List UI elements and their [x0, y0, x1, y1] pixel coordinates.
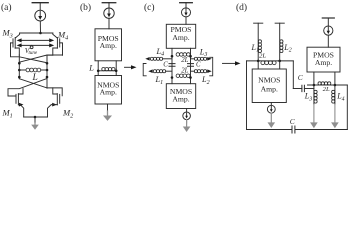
rail L1 D — [257, 23, 259, 61]
dots L B — [97, 70, 100, 73]
M3 source lead — [15, 33, 19, 38]
coupling wire lower A — [21, 44, 49, 46]
svg-text:Amp.: Amp. — [261, 85, 278, 94]
svg-text:C: C — [290, 117, 295, 126]
inductor L2 D — [280, 40, 283, 43]
riser to cap D — [292, 61, 294, 89]
svg-text:C: C — [196, 61, 201, 68]
svg-text:2L: 2L — [181, 57, 188, 64]
rail L3 D — [313, 85, 315, 105]
supply bar C — [180, 2, 193, 4]
wire ID-PMOS D — [327, 35, 329, 47]
Vtune port — [30, 46, 33, 49]
wire supply-ID — [327, 18, 329, 26]
svg-text:2L: 2L — [323, 86, 330, 93]
wire supply to source A — [39, 3, 41, 11]
svg-text:(b): (b) — [80, 2, 91, 13]
inductor 2L bottom C — [176, 74, 180, 78]
ground B — [107, 111, 109, 117]
svg-text:C: C — [163, 61, 168, 68]
NMOS amplifier B — [95, 76, 122, 105]
transistor M1 channel — [17, 94, 19, 105]
capacitor C left rail — [169, 64, 175, 67]
wire L3-gnd D — [313, 105, 315, 123]
wire cap-rail D — [304, 88, 314, 90]
current source IA — [35, 10, 46, 21]
outer wire right D — [346, 85, 348, 130]
cross line gate M1 A — [8, 79, 47, 97]
ground A — [34, 123, 36, 125]
M1 source arrow — [19, 103, 24, 107]
ground C — [186, 120, 188, 127]
tail wire A — [24, 116, 48, 118]
svg-text:Amp.: Amp. — [172, 33, 189, 42]
outer wire left D — [246, 61, 248, 130]
M3 gate lead — [11, 42, 14, 44]
M1 source lead — [18, 105, 23, 117]
inductor L3 C — [191, 58, 195, 60]
PMOS amplifier D — [307, 47, 340, 72]
row wire D left — [247, 60, 294, 62]
row wire D right — [308, 84, 348, 86]
dots row D left — [257, 60, 260, 63]
transistor M2 gate — [59, 94, 61, 103]
bracket left C — [143, 64, 146, 76]
tail stem A — [34, 117, 36, 123]
M2 source arrow — [52, 103, 57, 107]
supply bar D1 — [254, 22, 263, 24]
coupling wire upper A — [21, 39, 49, 41]
cross line gate M2 A — [19, 79, 62, 96]
arrow L4 C — [145, 57, 149, 61]
svg-text:L: L — [88, 64, 94, 73]
wire IC-PMOS — [185, 17, 187, 24]
svg-text:Amp.: Amp. — [315, 58, 332, 67]
transistor M2 channel — [56, 94, 58, 105]
M4 drain to rail — [47, 54, 53, 56]
right tank rail A — [46, 55, 48, 88]
dots top coil C — [171, 55, 174, 58]
dots bottom coil C — [171, 76, 174, 79]
inductor L A — [19, 69, 26, 71]
M1 drain lead — [18, 89, 23, 94]
wire L4-gnd D — [334, 105, 336, 123]
svg-text:2L: 2L — [259, 53, 266, 60]
inductor L1 D — [258, 40, 261, 43]
current source tail C — [183, 112, 191, 120]
inductor L4 C — [150, 57, 153, 60]
transform arrow B-C — [125, 66, 133, 68]
arrow L3 C — [206, 58, 209, 60]
svg-text:Amp.: Amp. — [100, 41, 117, 50]
inductor 2L D left — [261, 61, 265, 65]
capacitor C bottom D — [292, 126, 295, 133]
current source IC — [182, 8, 191, 17]
svg-text:Amp.: Amp. — [172, 94, 189, 103]
svg-text:C: C — [298, 73, 303, 82]
node dot A top — [39, 32, 42, 35]
arrow L2 C — [206, 70, 209, 72]
transform arrow C-D — [223, 62, 237, 64]
ground D left — [270, 113, 272, 123]
NMOS amplifier D — [252, 69, 286, 103]
inductor L2 C — [191, 70, 195, 72]
wire riser-cap D — [293, 88, 302, 90]
rails PMOS D — [314, 72, 335, 85]
ground L4 D — [331, 122, 339, 128]
ground L3 D — [310, 122, 318, 128]
NMOS amplifier C — [166, 84, 195, 109]
svg-text:(d): (d) — [236, 2, 247, 13]
cross line gate M4 A — [19, 55, 62, 62]
wire NMOS-gnd B — [107, 104, 109, 111]
wire IA to node — [39, 21, 41, 33]
rail L4 D — [334, 85, 336, 105]
inductor L3 D — [314, 90, 317, 93]
M2 drain lead — [53, 88, 57, 94]
tail dot A — [34, 116, 37, 119]
transistor M4 gate — [59, 39, 61, 47]
right rail B — [115, 61, 117, 76]
capacitor C top D — [302, 85, 305, 91]
current source ID — [324, 26, 333, 35]
dots rails A — [18, 62, 21, 65]
current source tail D — [267, 105, 275, 113]
inductor L1 C — [153, 70, 156, 73]
svg-text:(c): (c) — [144, 2, 155, 13]
bottom wire D — [247, 129, 348, 131]
wire NMOS-ICt C — [186, 109, 188, 113]
supply bar B — [102, 2, 116, 4]
svg-text:L: L — [32, 73, 38, 83]
wire ICt-gnd C — [186, 120, 188, 123]
capacitor C right rail — [188, 64, 194, 67]
current source IB — [104, 8, 114, 18]
inductor L4 D — [332, 90, 335, 93]
svg-text:tune: tune — [29, 51, 38, 56]
transistor M1 gate — [15, 94, 17, 103]
PMOS amplifier C — [166, 24, 195, 48]
transistor M3 channel — [14, 38, 16, 49]
wire IB-PMOS — [108, 18, 110, 28]
left tank rail A — [18, 55, 20, 79]
wire NMOS-IDt — [270, 103, 272, 106]
wire sources A — [20, 32, 53, 34]
inductor 2L D right — [318, 82, 321, 85]
bracket right C — [210, 57, 213, 76]
wire supply-IC — [185, 3, 187, 8]
left rail B — [97, 61, 99, 76]
M4 gate hook — [60, 43, 63, 55]
svg-text:Amp.: Amp. — [100, 88, 117, 97]
right rail C — [190, 48, 192, 83]
dots row D right — [313, 84, 316, 87]
wire supply-IB — [108, 3, 110, 8]
inductor 2L top C — [176, 53, 180, 57]
arrow L1 C — [148, 69, 152, 73]
supply bar D2 — [275, 22, 284, 24]
rail L2 D — [279, 23, 281, 61]
M4 drain lead — [53, 48, 58, 55]
svg-text:(a): (a) — [1, 2, 12, 13]
svg-text:NMOS: NMOS — [258, 75, 280, 84]
inductor L B — [98, 70, 116, 72]
transistor M3 gate — [12, 39, 14, 47]
cross line gate M3 A — [11, 43, 48, 63]
svg-text:2L: 2L — [181, 67, 188, 74]
supply bar D3 — [322, 17, 334, 19]
M3 drain lead — [15, 48, 19, 55]
supply bar A — [32, 2, 48, 4]
rails NMOS D — [258, 61, 280, 69]
M2 source lead — [48, 105, 58, 117]
left rail C — [171, 48, 173, 83]
transistor M4 channel — [56, 38, 58, 49]
PMOS amplifier B — [95, 29, 122, 61]
M4 source lead — [53, 33, 57, 38]
